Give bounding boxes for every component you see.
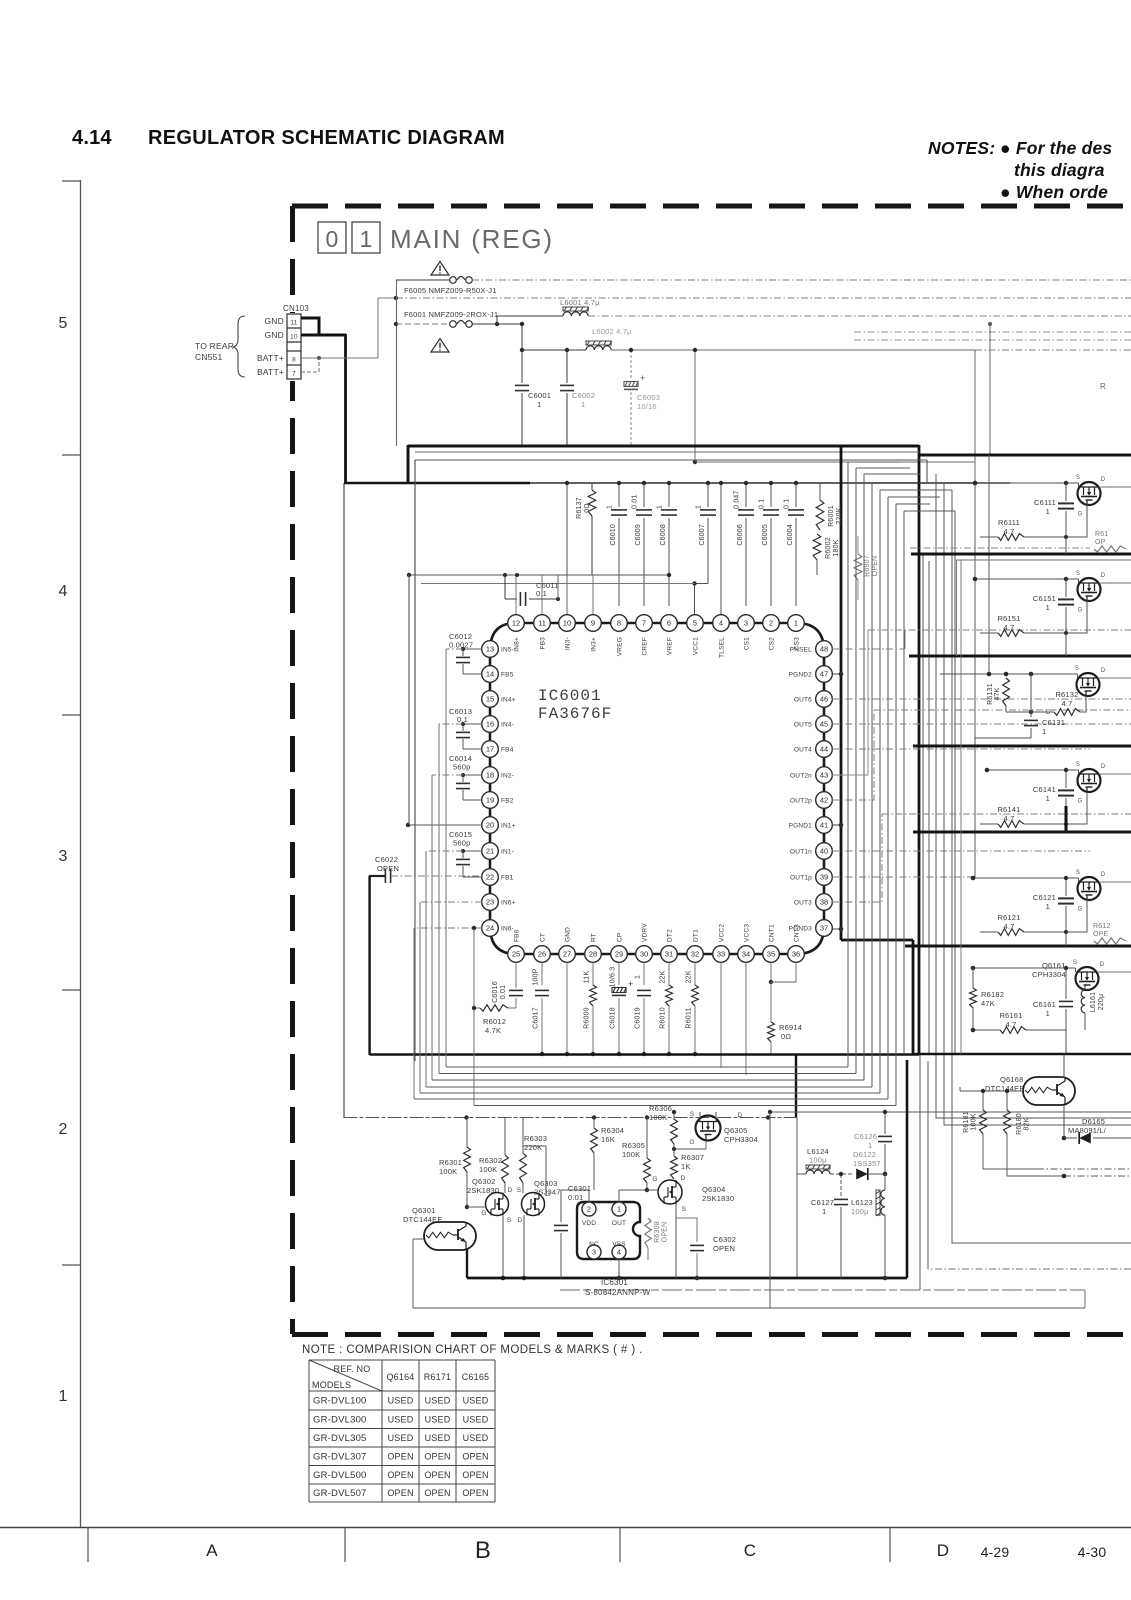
svg-text:DT2: DT2 bbox=[667, 929, 674, 942]
svg-text:D: D bbox=[518, 1217, 523, 1224]
wire bus y1117 from CN103 gnd bbox=[344, 1117, 798, 1119]
pin 14 FB5 bbox=[482, 666, 499, 683]
pin 41 PGND1 bbox=[816, 817, 833, 834]
svg-text:NOTE : COMPARISION CHART: NOTE : COMPARISION CHART OF MODELS & MAR… bbox=[302, 1344, 643, 1356]
left ruler line bbox=[80, 180, 82, 1527]
pin 29 CP bbox=[611, 946, 628, 963]
wire y1176 net bbox=[1064, 1175, 1131, 1177]
svg-text:L6002 4.7μ: L6002 4.7μ bbox=[592, 327, 632, 336]
svg-text:R61: R61 bbox=[1095, 531, 1108, 538]
wire C6121 gate link bbox=[1066, 900, 1087, 933]
ruler tick y715 bbox=[62, 714, 80, 716]
wire box x770 bbox=[769, 1112, 771, 1308]
svg-text:OP: OP bbox=[1095, 539, 1106, 546]
svg-text:1: 1 bbox=[607, 505, 614, 509]
transistor Q C6121 block FET bbox=[1078, 877, 1101, 900]
svg-text:23: 23 bbox=[486, 898, 494, 907]
wire Q6303 gate link bbox=[545, 1160, 547, 1196]
svg-text:3: 3 bbox=[744, 619, 748, 628]
svg-text:OPEN: OPEN bbox=[462, 1488, 488, 1498]
wire pin37 gnd stub bbox=[832, 928, 841, 930]
wire C6141 entry bbox=[987, 769, 1079, 771]
svg-text:USED: USED bbox=[388, 1414, 414, 1424]
wire bus y452 bbox=[415, 451, 919, 453]
wire right riser x961 bbox=[960, 560, 962, 1054]
wire L6002 net y348 bbox=[522, 349, 586, 351]
svg-text:Q6302: Q6302 bbox=[472, 1177, 496, 1186]
pin 28 RT bbox=[585, 946, 602, 963]
svg-text:11: 11 bbox=[538, 619, 546, 628]
svg-text:0Ω: 0Ω bbox=[781, 1032, 791, 1041]
svg-text:40: 40 bbox=[820, 847, 828, 856]
svg-text:S: S bbox=[1076, 475, 1080, 481]
svg-text:GR-DVL307: GR-DVL307 bbox=[313, 1451, 367, 1462]
ruler tick y1265 bbox=[62, 1264, 80, 1266]
svg-text:R612: R612 bbox=[1093, 923, 1111, 930]
svg-text:+: + bbox=[640, 373, 645, 383]
pin 35 CNT1 bbox=[763, 946, 780, 963]
svg-text:C6111: C6111 bbox=[1034, 498, 1056, 507]
wire pin47 gnd stub bbox=[832, 673, 841, 675]
pin 15 IN4+ bbox=[482, 691, 499, 708]
pin 23 IN6+ bbox=[482, 894, 499, 911]
resistor R6111 bbox=[998, 534, 1024, 541]
svg-text:VREF: VREF bbox=[667, 637, 674, 655]
capacitor C6007 bbox=[707, 483, 709, 507]
svg-text:IN1+: IN1+ bbox=[501, 823, 516, 830]
svg-text:3: 3 bbox=[592, 1248, 596, 1257]
svg-text:● For the des: ● For the des bbox=[1000, 138, 1112, 158]
svg-text:1: 1 bbox=[794, 619, 798, 628]
svg-text:OUT2n: OUT2n bbox=[790, 773, 812, 780]
svg-text:C6018: C6018 bbox=[610, 1007, 617, 1029]
svg-text:OUT5: OUT5 bbox=[794, 722, 812, 729]
wire nested bus line 5 bbox=[419, 902, 421, 1093]
wire right riser x872 bbox=[871, 483, 873, 1087]
svg-text:R6171: R6171 bbox=[424, 1372, 452, 1382]
wire bus y575 bbox=[409, 574, 669, 576]
svg-text:IC6301: IC6301 bbox=[601, 1278, 628, 1287]
pin 42 OUT2p bbox=[816, 792, 833, 809]
svg-text:Q6168: Q6168 bbox=[1000, 1075, 1024, 1084]
wire R6180 drop bbox=[1007, 1134, 1064, 1176]
svg-text:D: D bbox=[937, 1541, 949, 1560]
svg-text:41: 41 bbox=[820, 821, 828, 830]
svg-text:G: G bbox=[689, 1139, 694, 1146]
pin 4 TLSEL bbox=[713, 615, 730, 632]
wire pin35 riser bbox=[770, 962, 772, 982]
wire riser x990 bbox=[989, 324, 991, 455]
wire pin16 net left bbox=[439, 723, 463, 725]
wire bus y584 bbox=[421, 583, 695, 585]
capacitor C6001 bbox=[521, 324, 523, 383]
svg-text:21: 21 bbox=[486, 847, 494, 856]
wire R6303 top link bbox=[523, 1146, 546, 1160]
svg-text:37: 37 bbox=[820, 924, 828, 933]
svg-text:R6306: R6306 bbox=[649, 1104, 672, 1113]
pin 3 CS1 bbox=[738, 615, 755, 632]
svg-text:100K: 100K bbox=[622, 1150, 640, 1159]
svg-text:C6009: C6009 bbox=[635, 524, 642, 546]
svg-text:C6131: C6131 bbox=[1042, 718, 1065, 727]
wire block separator y746 bbox=[913, 745, 1131, 748]
svg-text:FB1: FB1 bbox=[501, 875, 514, 882]
wire right riser x848 bbox=[847, 462, 849, 1067]
svg-text:G: G bbox=[1078, 799, 1083, 805]
svg-text:C6008: C6008 bbox=[660, 524, 667, 546]
transistor Q6161 CPH3304 bbox=[1076, 967, 1099, 990]
svg-text:46: 46 bbox=[820, 695, 828, 704]
svg-text:29: 29 bbox=[615, 950, 623, 959]
svg-text:R6012: R6012 bbox=[483, 1017, 506, 1026]
wire thick corner x408 bbox=[407, 445, 410, 484]
wire thick block4 cap drop bbox=[1065, 806, 1068, 832]
wire thick top bus y446 bbox=[408, 445, 919, 448]
capacitor C6002 bbox=[566, 350, 568, 383]
svg-text:GR-DVL300: GR-DVL300 bbox=[313, 1414, 367, 1425]
wire block6 entry y968 bbox=[973, 967, 1076, 969]
svg-text:35: 35 bbox=[767, 950, 775, 959]
svg-text:FB3: FB3 bbox=[540, 637, 547, 650]
svg-text:C6005: C6005 bbox=[762, 524, 769, 546]
fuse F6005 bbox=[450, 277, 473, 284]
svg-text:R6009: R6009 bbox=[584, 1007, 591, 1029]
wire top net y332 right bbox=[854, 331, 1131, 333]
dashed board border left bbox=[290, 206, 295, 1334]
pin 19 FB2 bbox=[482, 792, 499, 809]
svg-text:5: 5 bbox=[58, 315, 67, 332]
wire pin41 gnd stub bbox=[832, 824, 841, 826]
capacitor C6111 bbox=[1065, 483, 1067, 501]
svg-text:VDD: VDD bbox=[582, 1220, 596, 1227]
pin 12 IN8+ bbox=[508, 615, 525, 632]
svg-text:36: 36 bbox=[792, 950, 800, 959]
wire pin10 column bbox=[566, 483, 568, 614]
svg-text:180K: 180K bbox=[833, 539, 840, 556]
svg-text:MA8091/L/: MA8091/L/ bbox=[1068, 1126, 1107, 1135]
wire nested bus line 1 bbox=[445, 649, 447, 1067]
wire C6151 gate link bbox=[1066, 601, 1087, 634]
svg-text:4.7K: 4.7K bbox=[485, 1026, 501, 1035]
svg-text:USED: USED bbox=[463, 1433, 489, 1443]
wire box x797 bbox=[796, 1118, 798, 1278]
svg-text:0.0027: 0.0027 bbox=[449, 641, 473, 650]
pin 24 IN6- bbox=[482, 920, 499, 937]
wire pin24 net left bbox=[414, 927, 482, 929]
svg-text:GND: GND bbox=[265, 316, 285, 326]
wire CN103 pin7 batt+ link bbox=[301, 358, 319, 372]
svg-text:43: 43 bbox=[820, 771, 828, 780]
wire L6001 net bbox=[497, 316, 563, 324]
pin 2 VDD bbox=[582, 1202, 596, 1216]
svg-text:D: D bbox=[1100, 962, 1105, 968]
wire y599 stub bbox=[557, 575, 559, 599]
pin 8 VREG bbox=[611, 615, 628, 632]
capacitor C6018 10/6.3 electrolytic bbox=[618, 962, 620, 985]
svg-text:GR-DVL500: GR-DVL500 bbox=[313, 1470, 367, 1481]
svg-text:USED: USED bbox=[388, 1396, 414, 1406]
svg-text:D: D bbox=[1101, 668, 1106, 674]
svg-text:S: S bbox=[1076, 870, 1080, 876]
svg-text:R6001: R6001 bbox=[828, 505, 835, 527]
wire pin46 OUT6 net bbox=[832, 698, 1131, 700]
svg-text:10: 10 bbox=[563, 619, 571, 628]
pin 17 FB4 bbox=[482, 741, 499, 758]
svg-text:1: 1 bbox=[635, 975, 642, 979]
svg-text:G: G bbox=[1078, 512, 1083, 518]
svg-text:USED: USED bbox=[425, 1396, 451, 1406]
svg-text:VSS: VSS bbox=[612, 1241, 626, 1248]
pin 1 CS3 bbox=[788, 615, 805, 632]
resistor R6181 100K bbox=[980, 1110, 987, 1134]
svg-text:R6137: R6137 bbox=[576, 497, 583, 519]
pin 16 IN4- bbox=[482, 716, 499, 733]
fuse F6001 bbox=[450, 321, 473, 328]
svg-text:PGND2: PGND2 bbox=[789, 672, 813, 679]
svg-text:R6132: R6132 bbox=[1055, 690, 1078, 699]
wire Q6304 source drop bbox=[675, 1204, 677, 1278]
wire nested bus line 7 bbox=[473, 928, 475, 1106]
svg-text:1: 1 bbox=[1046, 1009, 1050, 1018]
svg-text:CNT1: CNT1 bbox=[769, 924, 776, 942]
pin 26 CT bbox=[534, 946, 551, 963]
svg-text:Q6161: Q6161 bbox=[1042, 961, 1066, 970]
svg-text:REGULATOR SCHEMATIC DIAGRAM: REGULATOR SCHEMATIC DIAGRAM bbox=[148, 127, 505, 149]
wire Q6168 base bbox=[960, 1090, 1023, 1092]
svg-text:R6301: R6301 bbox=[439, 1158, 462, 1167]
svg-text:38: 38 bbox=[820, 898, 828, 907]
svg-text:220K: 220K bbox=[836, 507, 843, 524]
svg-text:C6019: C6019 bbox=[635, 1007, 642, 1029]
svg-text:+: + bbox=[628, 979, 633, 989]
svg-text:C6010: C6010 bbox=[610, 524, 617, 546]
dashed board border top bbox=[292, 204, 1131, 209]
wire pin27 gnd bbox=[566, 962, 568, 1054]
pin 13 IN5- bbox=[482, 641, 499, 658]
pin 44 OUT4 bbox=[816, 741, 833, 758]
svg-text:IN6-: IN6- bbox=[501, 926, 514, 933]
wire right riser x880 bbox=[879, 490, 881, 1093]
svg-text:R6307: R6307 bbox=[681, 1153, 704, 1162]
svg-text:12: 12 bbox=[512, 619, 520, 628]
ruler tick y181 bbox=[62, 180, 80, 182]
svg-text:C6302: C6302 bbox=[713, 1235, 736, 1244]
svg-text:D6165: D6165 bbox=[1082, 1117, 1105, 1126]
svg-text:42: 42 bbox=[820, 796, 828, 805]
svg-text:4-29: 4-29 bbox=[981, 1544, 1010, 1560]
svg-text:22: 22 bbox=[486, 873, 494, 882]
wire pin20 net left bbox=[408, 824, 482, 826]
svg-text:39: 39 bbox=[820, 873, 828, 882]
wire CN103 pin10 gnd feed bbox=[301, 334, 346, 337]
svg-text:VCC1: VCC1 bbox=[693, 637, 700, 655]
svg-text:IN2-: IN2- bbox=[501, 773, 514, 780]
board id box 1 bbox=[352, 222, 380, 253]
wire C6111 entry bbox=[975, 482, 1079, 484]
wire block separator y832 bbox=[913, 831, 1131, 834]
wire pin45 OUT5 net bbox=[832, 723, 1131, 725]
svg-text:R6002: R6002 bbox=[825, 537, 832, 559]
warning triangle 1 bbox=[431, 262, 449, 276]
svg-text:USED: USED bbox=[463, 1396, 489, 1406]
wire pin18 net left bbox=[432, 774, 463, 776]
svg-text:D: D bbox=[1101, 477, 1106, 483]
svg-text:10: 10 bbox=[290, 334, 298, 341]
wire right riser x888 bbox=[887, 497, 889, 1099]
svg-text:11K: 11K bbox=[584, 971, 591, 984]
svg-text:C6007: C6007 bbox=[699, 524, 706, 546]
svg-text:0.01: 0.01 bbox=[568, 1193, 583, 1202]
svg-text:14: 14 bbox=[486, 670, 494, 679]
svg-text:4.7: 4.7 bbox=[1061, 699, 1072, 708]
pin 33 VCC2 bbox=[713, 946, 730, 963]
svg-text:G: G bbox=[1078, 608, 1083, 614]
svg-text:IN3-: IN3- bbox=[565, 637, 572, 650]
wire IC6301 vss bbox=[618, 1259, 620, 1278]
svg-text:CS1: CS1 bbox=[744, 637, 751, 650]
capacitor C6006 bbox=[745, 483, 747, 507]
svg-text:1: 1 bbox=[657, 505, 664, 509]
svg-text:8: 8 bbox=[617, 619, 621, 628]
resistor R6010 22K bbox=[668, 962, 670, 985]
pin 22 FB1 bbox=[482, 869, 499, 886]
svg-text:560p: 560p bbox=[453, 839, 471, 848]
pin 11 FB3 bbox=[534, 615, 551, 632]
resistor R6001 220K bbox=[816, 500, 824, 530]
svg-text:CP: CP bbox=[617, 933, 624, 942]
svg-text:R6181: R6181 bbox=[963, 1111, 970, 1133]
svg-text:C6003: C6003 bbox=[637, 393, 660, 402]
svg-text:4.14: 4.14 bbox=[72, 127, 112, 149]
svg-text:18: 18 bbox=[486, 771, 494, 780]
wire thick cap bus y483 bbox=[344, 482, 530, 485]
svg-text:CS2: CS2 bbox=[769, 637, 776, 650]
svg-text:R: R bbox=[1100, 382, 1106, 391]
svg-text:VDRV: VDRV bbox=[642, 923, 649, 942]
svg-text:IN5-: IN5- bbox=[501, 647, 514, 654]
svg-text:4-30: 4-30 bbox=[1078, 1544, 1107, 1560]
svg-text:10/6.3: 10/6.3 bbox=[610, 967, 617, 988]
transistor Q C6141 block FET bbox=[1078, 769, 1101, 792]
svg-text:GR-DVL100: GR-DVL100 bbox=[313, 1396, 367, 1407]
pin 48 PNSEL bbox=[816, 641, 833, 658]
svg-text:C6017: C6017 bbox=[533, 1007, 540, 1029]
pin 21 IN1- bbox=[482, 843, 499, 860]
svg-text:47K: 47K bbox=[994, 687, 1001, 700]
svg-text:Q6301: Q6301 bbox=[412, 1206, 436, 1215]
wire C6111 ground drop bbox=[1065, 537, 1067, 554]
pin 10 IN3- bbox=[559, 615, 576, 632]
svg-text:IN6+: IN6+ bbox=[501, 900, 516, 907]
svg-text:1: 1 bbox=[868, 1141, 872, 1150]
svg-text:22K: 22K bbox=[686, 970, 693, 983]
svg-text:R6907: R6907 bbox=[864, 555, 871, 577]
pin 18 IN2- bbox=[482, 767, 499, 784]
svg-text:F6005 NMFZ009-R50X-J1: F6005 NMFZ009-R50X-J1 bbox=[404, 286, 497, 295]
svg-text:OUT1p: OUT1p bbox=[790, 875, 812, 882]
svg-text:16K: 16K bbox=[601, 1135, 615, 1144]
svg-text:FB6: FB6 bbox=[514, 929, 521, 942]
pin 43 OUT2n bbox=[816, 767, 833, 784]
wire right riser x856 bbox=[855, 468, 857, 1074]
svg-text:4.7: 4.7 bbox=[1003, 922, 1014, 931]
wire pin40 OUT1n net bbox=[832, 850, 1090, 852]
svg-text:R6304: R6304 bbox=[601, 1126, 624, 1135]
svg-text:R6141: R6141 bbox=[997, 805, 1020, 814]
pin 3 NC bbox=[587, 1245, 601, 1259]
wire Q6301 out thick bbox=[466, 1249, 468, 1278]
pin 4 VSS bbox=[612, 1245, 626, 1259]
pin 1 OUT bbox=[612, 1202, 626, 1216]
svg-text:G: G bbox=[1078, 907, 1083, 913]
svg-text:7: 7 bbox=[292, 371, 296, 378]
resistor R6141 bbox=[998, 821, 1024, 828]
wire right riser x955 bbox=[954, 511, 956, 1054]
svg-text:0.01: 0.01 bbox=[632, 495, 639, 509]
svg-text:CREF: CREF bbox=[642, 637, 649, 656]
svg-text:OPEN: OPEN bbox=[424, 1451, 450, 1461]
wire right riser x936 bbox=[936, 474, 1131, 1118]
wire block separator y1054 bbox=[913, 1053, 1131, 1056]
svg-text:L6161: L6161 bbox=[1090, 992, 1097, 1012]
svg-text:CN551: CN551 bbox=[195, 352, 223, 362]
svg-text:OPEN: OPEN bbox=[387, 1488, 413, 1498]
pin 25 FB6 bbox=[508, 946, 525, 963]
svg-text:C6016: C6016 bbox=[492, 981, 499, 1003]
wire pnsel riser bbox=[904, 630, 906, 649]
svg-text:D: D bbox=[508, 1187, 513, 1194]
svg-text:2SK1830: 2SK1830 bbox=[467, 1186, 499, 1195]
bottom tick x88 bbox=[87, 1527, 89, 1562]
capacitor C6017 100P bbox=[541, 962, 543, 985]
svg-text:TO REAR: TO REAR bbox=[195, 341, 234, 351]
svg-text:F6001 NMFZ009-2ROX-J1: F6001 NMFZ009-2ROX-J1 bbox=[404, 310, 498, 319]
svg-text:OUT2p: OUT2p bbox=[790, 798, 812, 805]
capacitor C6141 bbox=[1065, 770, 1067, 788]
svg-text:C6301: C6301 bbox=[568, 1184, 591, 1193]
wire thick gnd riser x913 bbox=[912, 940, 915, 1054]
capacitor C6131 bbox=[1030, 674, 1032, 712]
svg-text:S: S bbox=[1073, 960, 1077, 966]
svg-text:0.1: 0.1 bbox=[784, 499, 791, 509]
CN103 brace bbox=[233, 316, 245, 377]
bottom ruler line bbox=[0, 1527, 1131, 1529]
svg-text:0.01: 0.01 bbox=[500, 985, 507, 999]
capacitor C6008 bbox=[668, 483, 670, 507]
svg-text:22K: 22K bbox=[660, 970, 667, 983]
svg-text:R6182: R6182 bbox=[981, 990, 1004, 999]
wire pin33 riser bbox=[720, 962, 722, 1068]
wire Q6301 base bbox=[413, 1238, 424, 1240]
pin 30 VDRV bbox=[636, 946, 653, 963]
wire nested bus line 3 bbox=[431, 775, 433, 1080]
wire riser x415 bbox=[414, 460, 416, 1061]
svg-text:FB4: FB4 bbox=[501, 747, 514, 754]
svg-text:C6161: C6161 bbox=[1033, 1000, 1056, 1009]
svg-text:1: 1 bbox=[822, 1207, 826, 1216]
svg-text:8: 8 bbox=[292, 357, 296, 364]
svg-text:13: 13 bbox=[486, 645, 494, 654]
svg-text:34: 34 bbox=[742, 950, 750, 959]
wire bus y460 bbox=[415, 459, 927, 461]
svg-text:R6161: R6161 bbox=[999, 1011, 1022, 1020]
pin 38 OUT3 bbox=[816, 894, 833, 911]
svg-text:R6010: R6010 bbox=[660, 1007, 667, 1029]
wire pin44 OUT4 net bbox=[832, 748, 1090, 750]
svg-text:S: S bbox=[1075, 666, 1079, 672]
capacitor C6005 bbox=[770, 483, 772, 507]
wire C6121 entry bbox=[973, 877, 1079, 879]
